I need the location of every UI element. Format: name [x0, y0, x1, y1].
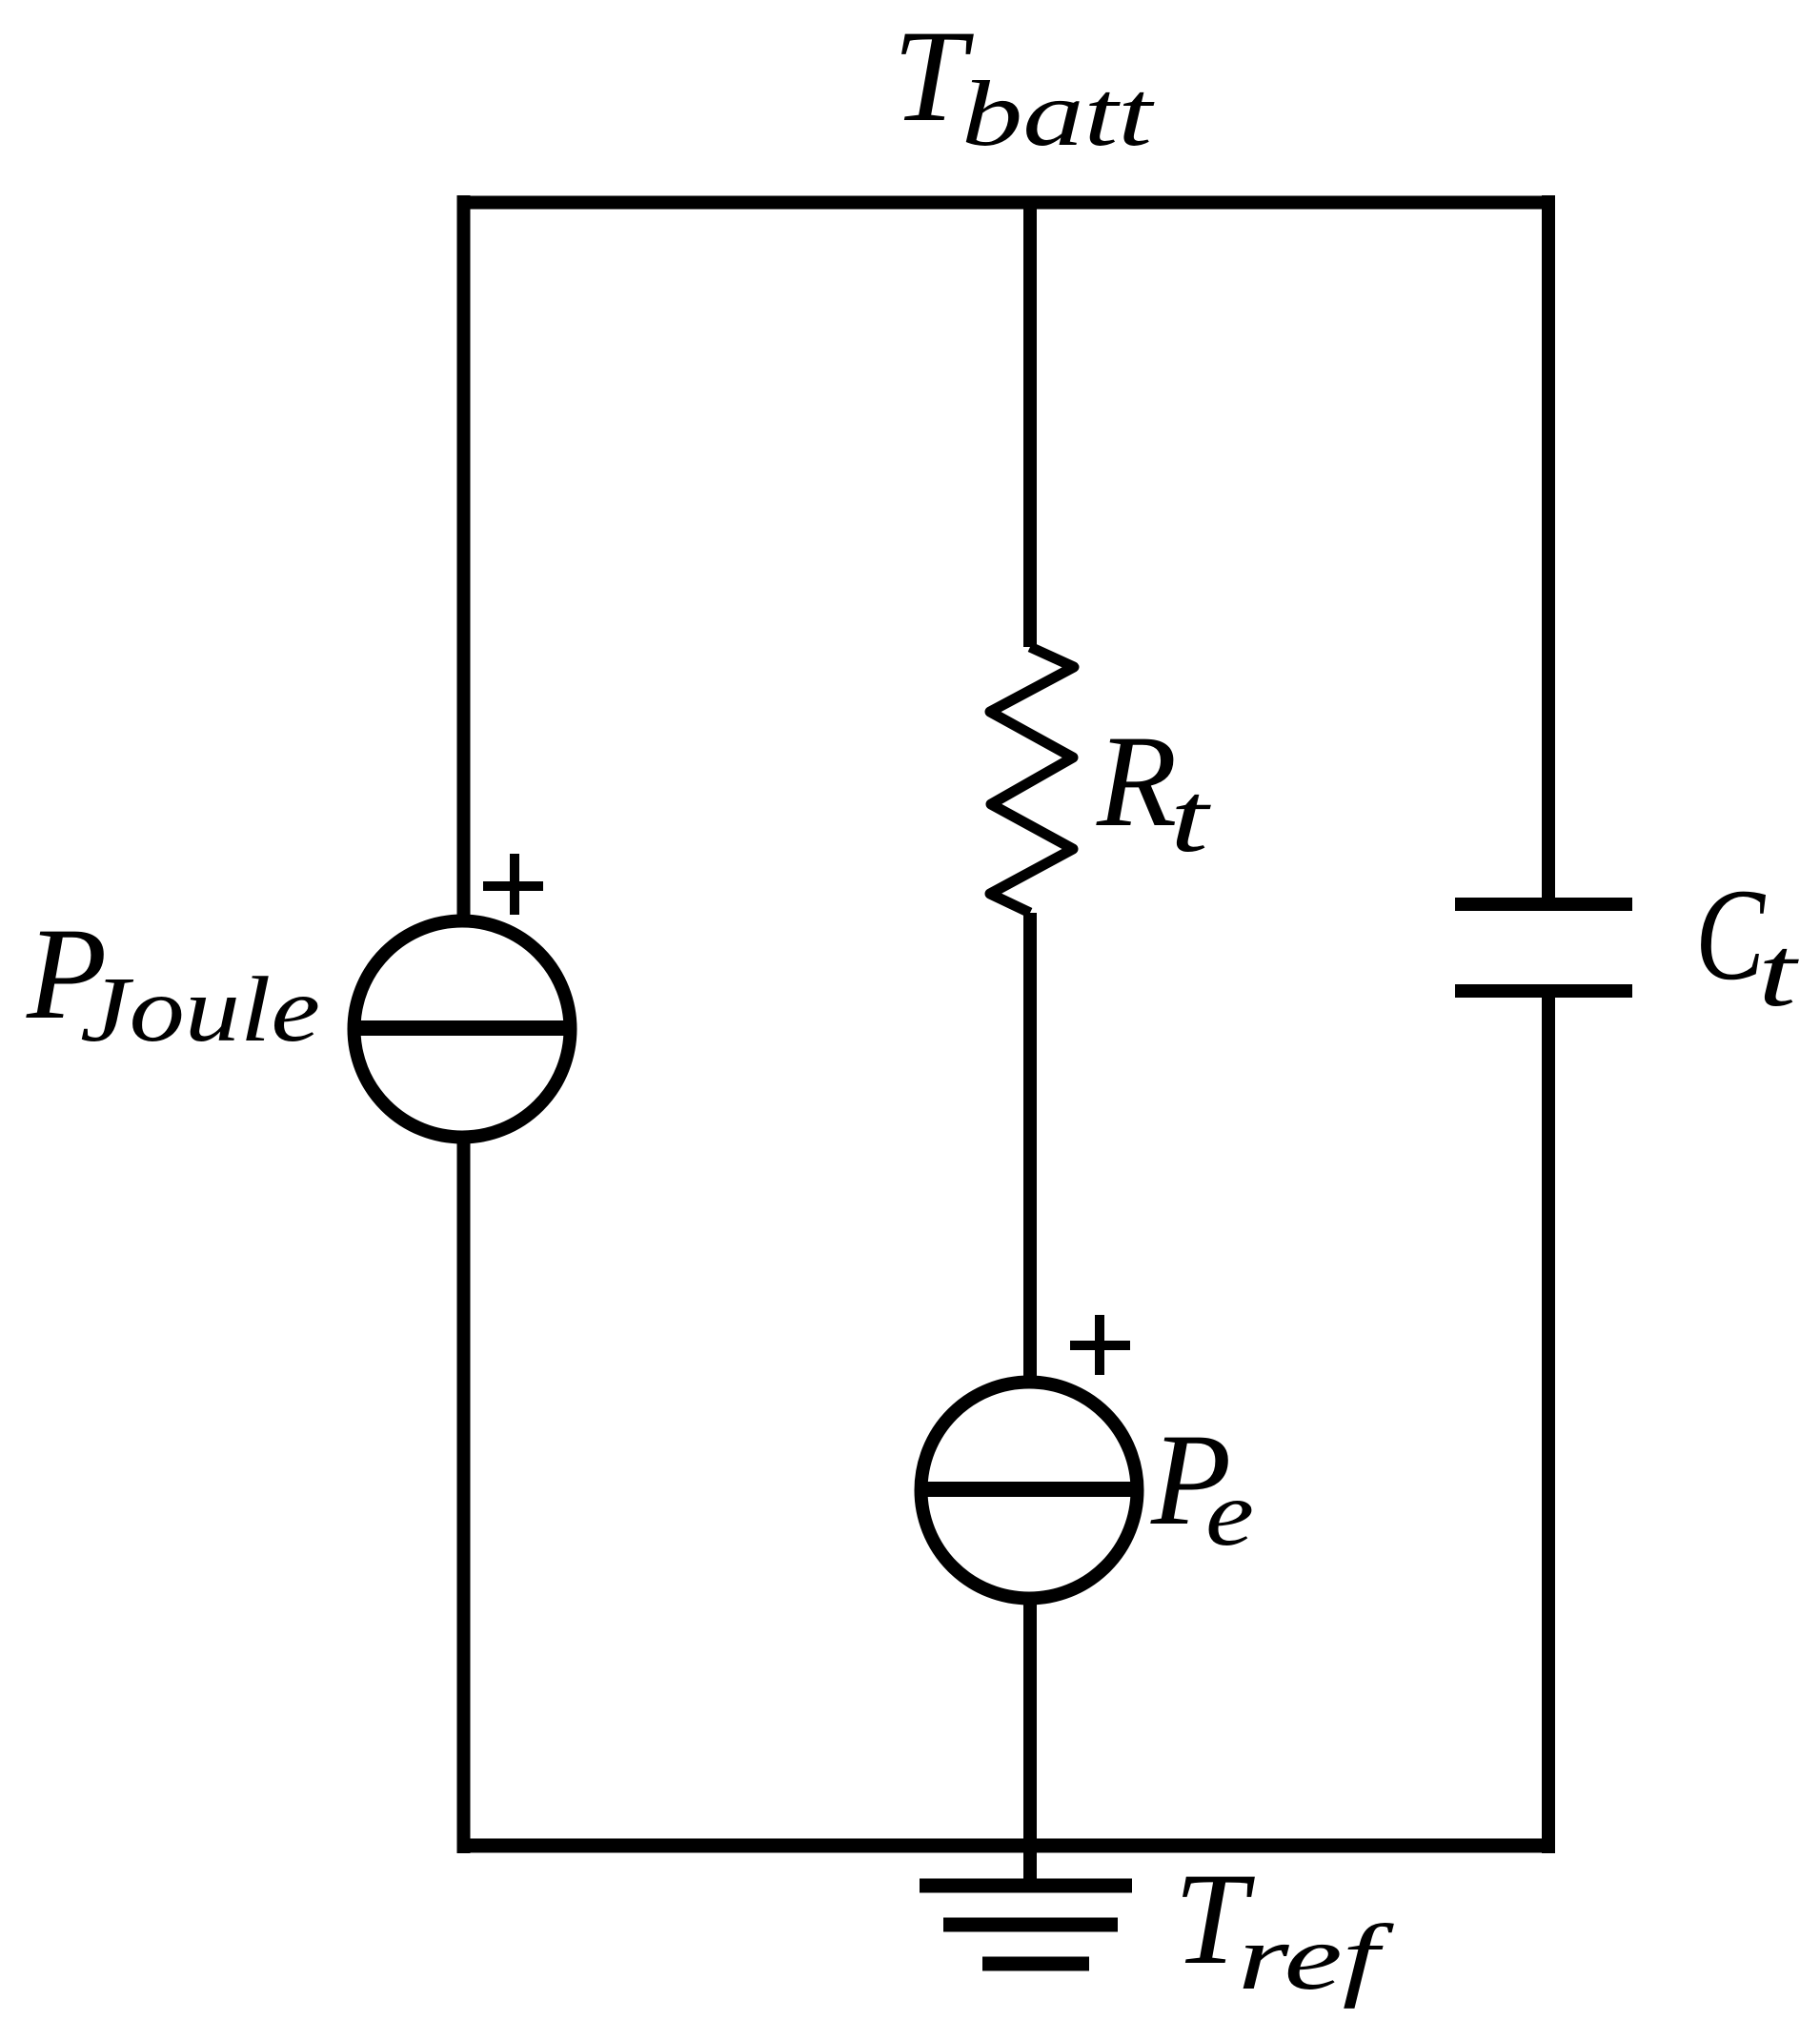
svg-text:t: t	[1170, 761, 1212, 873]
capacitor C_t top plate	[1455, 898, 1632, 911]
capacitor C_t bottom plate	[1455, 984, 1632, 998]
svg-text:C: C	[1695, 861, 1767, 1007]
ground T_ref bar 3	[982, 1957, 1089, 1971]
node label T_batt	[893, 3, 1156, 166]
label C_t	[1695, 861, 1800, 1027]
wire middle branch lower to ground	[1023, 1490, 1037, 1892]
label P_e	[1150, 1406, 1254, 1565]
wire top bar (node T_batt)	[457, 196, 1555, 210]
label P_Joule	[26, 900, 320, 1061]
svg-text:ref: ref	[1238, 1907, 1395, 2010]
wire left branch upper	[457, 195, 471, 1029]
wire right branch lower	[1542, 991, 1555, 1853]
wire middle branch upper	[1023, 203, 1037, 647]
svg-text:e: e	[1205, 1463, 1254, 1565]
svg-text:batt: batt	[961, 63, 1156, 166]
svg-text:t: t	[1758, 916, 1800, 1027]
wire right branch upper	[1542, 195, 1555, 904]
wire left branch lower	[457, 1029, 471, 1853]
wire middle branch between R_t and P_e	[1023, 913, 1037, 1490]
plus sign of P_Joule	[483, 854, 543, 915]
plus sign of P_e	[1070, 1315, 1130, 1375]
node label T_ref	[1174, 1846, 1395, 2010]
resistor R_t	[990, 647, 1074, 913]
ground T_ref bar 2	[943, 1918, 1118, 1932]
wire bottom bar (node T_ref)	[457, 1839, 1554, 1853]
power source P_e	[920, 1383, 1139, 1599]
label R_t	[1096, 708, 1212, 873]
ground T_ref bar 1	[920, 1879, 1132, 1893]
svg-text:Joule: Joule	[80, 959, 320, 1061]
power source P_Joule	[353, 921, 572, 1138]
svg-text:R: R	[1096, 708, 1177, 854]
